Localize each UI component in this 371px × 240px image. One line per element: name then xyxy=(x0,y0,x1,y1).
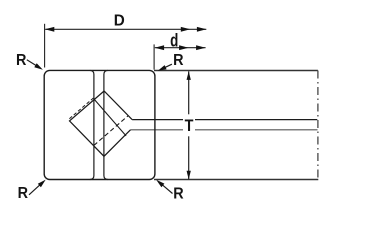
svg-text:D: D xyxy=(114,12,125,29)
svg-text:R: R xyxy=(16,52,27,69)
svg-text:R: R xyxy=(18,185,29,202)
svg-text:R: R xyxy=(173,52,184,69)
svg-text:d: d xyxy=(170,31,178,51)
svg-text:R: R xyxy=(173,185,184,202)
svg-text:T: T xyxy=(185,116,194,135)
